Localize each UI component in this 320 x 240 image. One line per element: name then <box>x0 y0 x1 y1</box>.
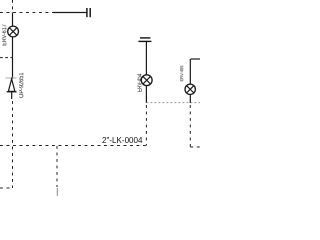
wire: dashed horizontal at bottom-left corner <box>0 187 13 189</box>
wire: top-left vertical dashed stub <box>12 0 14 13</box>
wire: vertical pipe above right valve <box>189 59 191 84</box>
wire: gray fading tail of dashed vertical <box>56 188 58 196</box>
wire: dashed vertical at x=57 <box>56 146 58 187</box>
wire: dashed vertical below ERV-454 <box>145 105 147 146</box>
wire: dashed stub from left edge into pipe <box>0 57 13 59</box>
wire: top solid pipe to blind flange <box>53 12 87 14</box>
svg-text:2"-LK-0004: 2"-LK-0004 <box>102 136 143 145</box>
svg-text:ERV-455: ERV-455 <box>179 65 184 81</box>
wire: vertical pipe above valve ERV-617 <box>12 13 14 27</box>
node: gray tick at drain symbol <box>6 77 17 79</box>
svg-text:ERV-454: ERV-454 <box>138 73 144 92</box>
wire: solid pipe from right edge <box>191 58 200 60</box>
valve ERV-454 <box>141 75 152 86</box>
valve ERV-455 <box>185 84 195 94</box>
wire: vertical pipe below valve ERV-617 <box>12 37 14 79</box>
wire: long horizontal dashed boundary <box>0 145 146 147</box>
wire: dashed vertical continuation at left <box>12 101 14 188</box>
vent to atmosphere symbol <box>138 38 151 42</box>
wire: dashed vertical below right valve <box>189 105 191 147</box>
svg-text:OP-92651: OP-92651 <box>19 72 25 98</box>
wire: gray dashed instrument line <box>146 102 200 104</box>
wire: vertical pipe below valve ERV-454 <box>145 85 147 103</box>
blind flange termination <box>87 8 90 17</box>
wire: vertical pipe below right valve <box>189 94 191 103</box>
wire: vertical pipe above valve ERV-454 <box>145 42 147 75</box>
wire: short pipe below funnel <box>11 92 13 99</box>
drain funnel symbol OP-92651 <box>7 79 17 92</box>
wire: top horizontal dashed boundary line <box>0 12 53 14</box>
valve ERV-617 <box>8 26 19 37</box>
wire: dashed horizontal bottom-right corner <box>190 146 200 148</box>
svg-text:ERV-617: ERV-617 <box>2 24 8 46</box>
